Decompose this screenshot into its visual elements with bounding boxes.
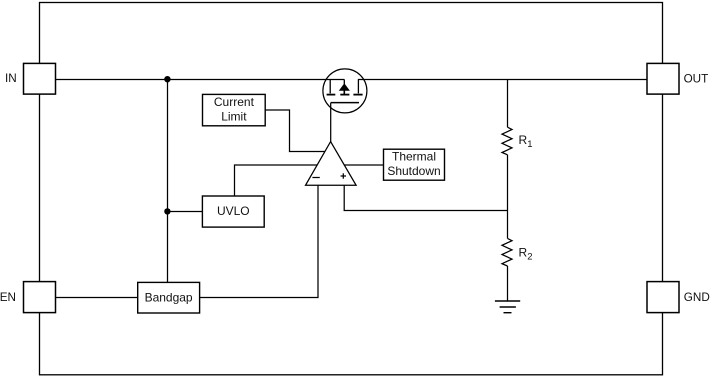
svg-text:IN: IN (5, 72, 17, 85)
svg-text:Limit: Limit (221, 110, 247, 124)
svg-text:EN: EN (0, 291, 16, 304)
svg-text:GND: GND (684, 291, 710, 304)
svg-text:R: R (519, 133, 528, 147)
svg-text:Shutdown: Shutdown (387, 164, 440, 178)
svg-text:Thermal: Thermal (392, 150, 436, 164)
svg-text:1: 1 (527, 139, 532, 150)
svg-text:UVLO: UVLO (217, 204, 250, 218)
svg-text:Current: Current (214, 95, 255, 109)
svg-text:Bandgap: Bandgap (145, 291, 193, 305)
svg-text:R: R (519, 246, 528, 260)
svg-text:2: 2 (527, 251, 532, 262)
svg-text:OUT: OUT (684, 73, 709, 86)
